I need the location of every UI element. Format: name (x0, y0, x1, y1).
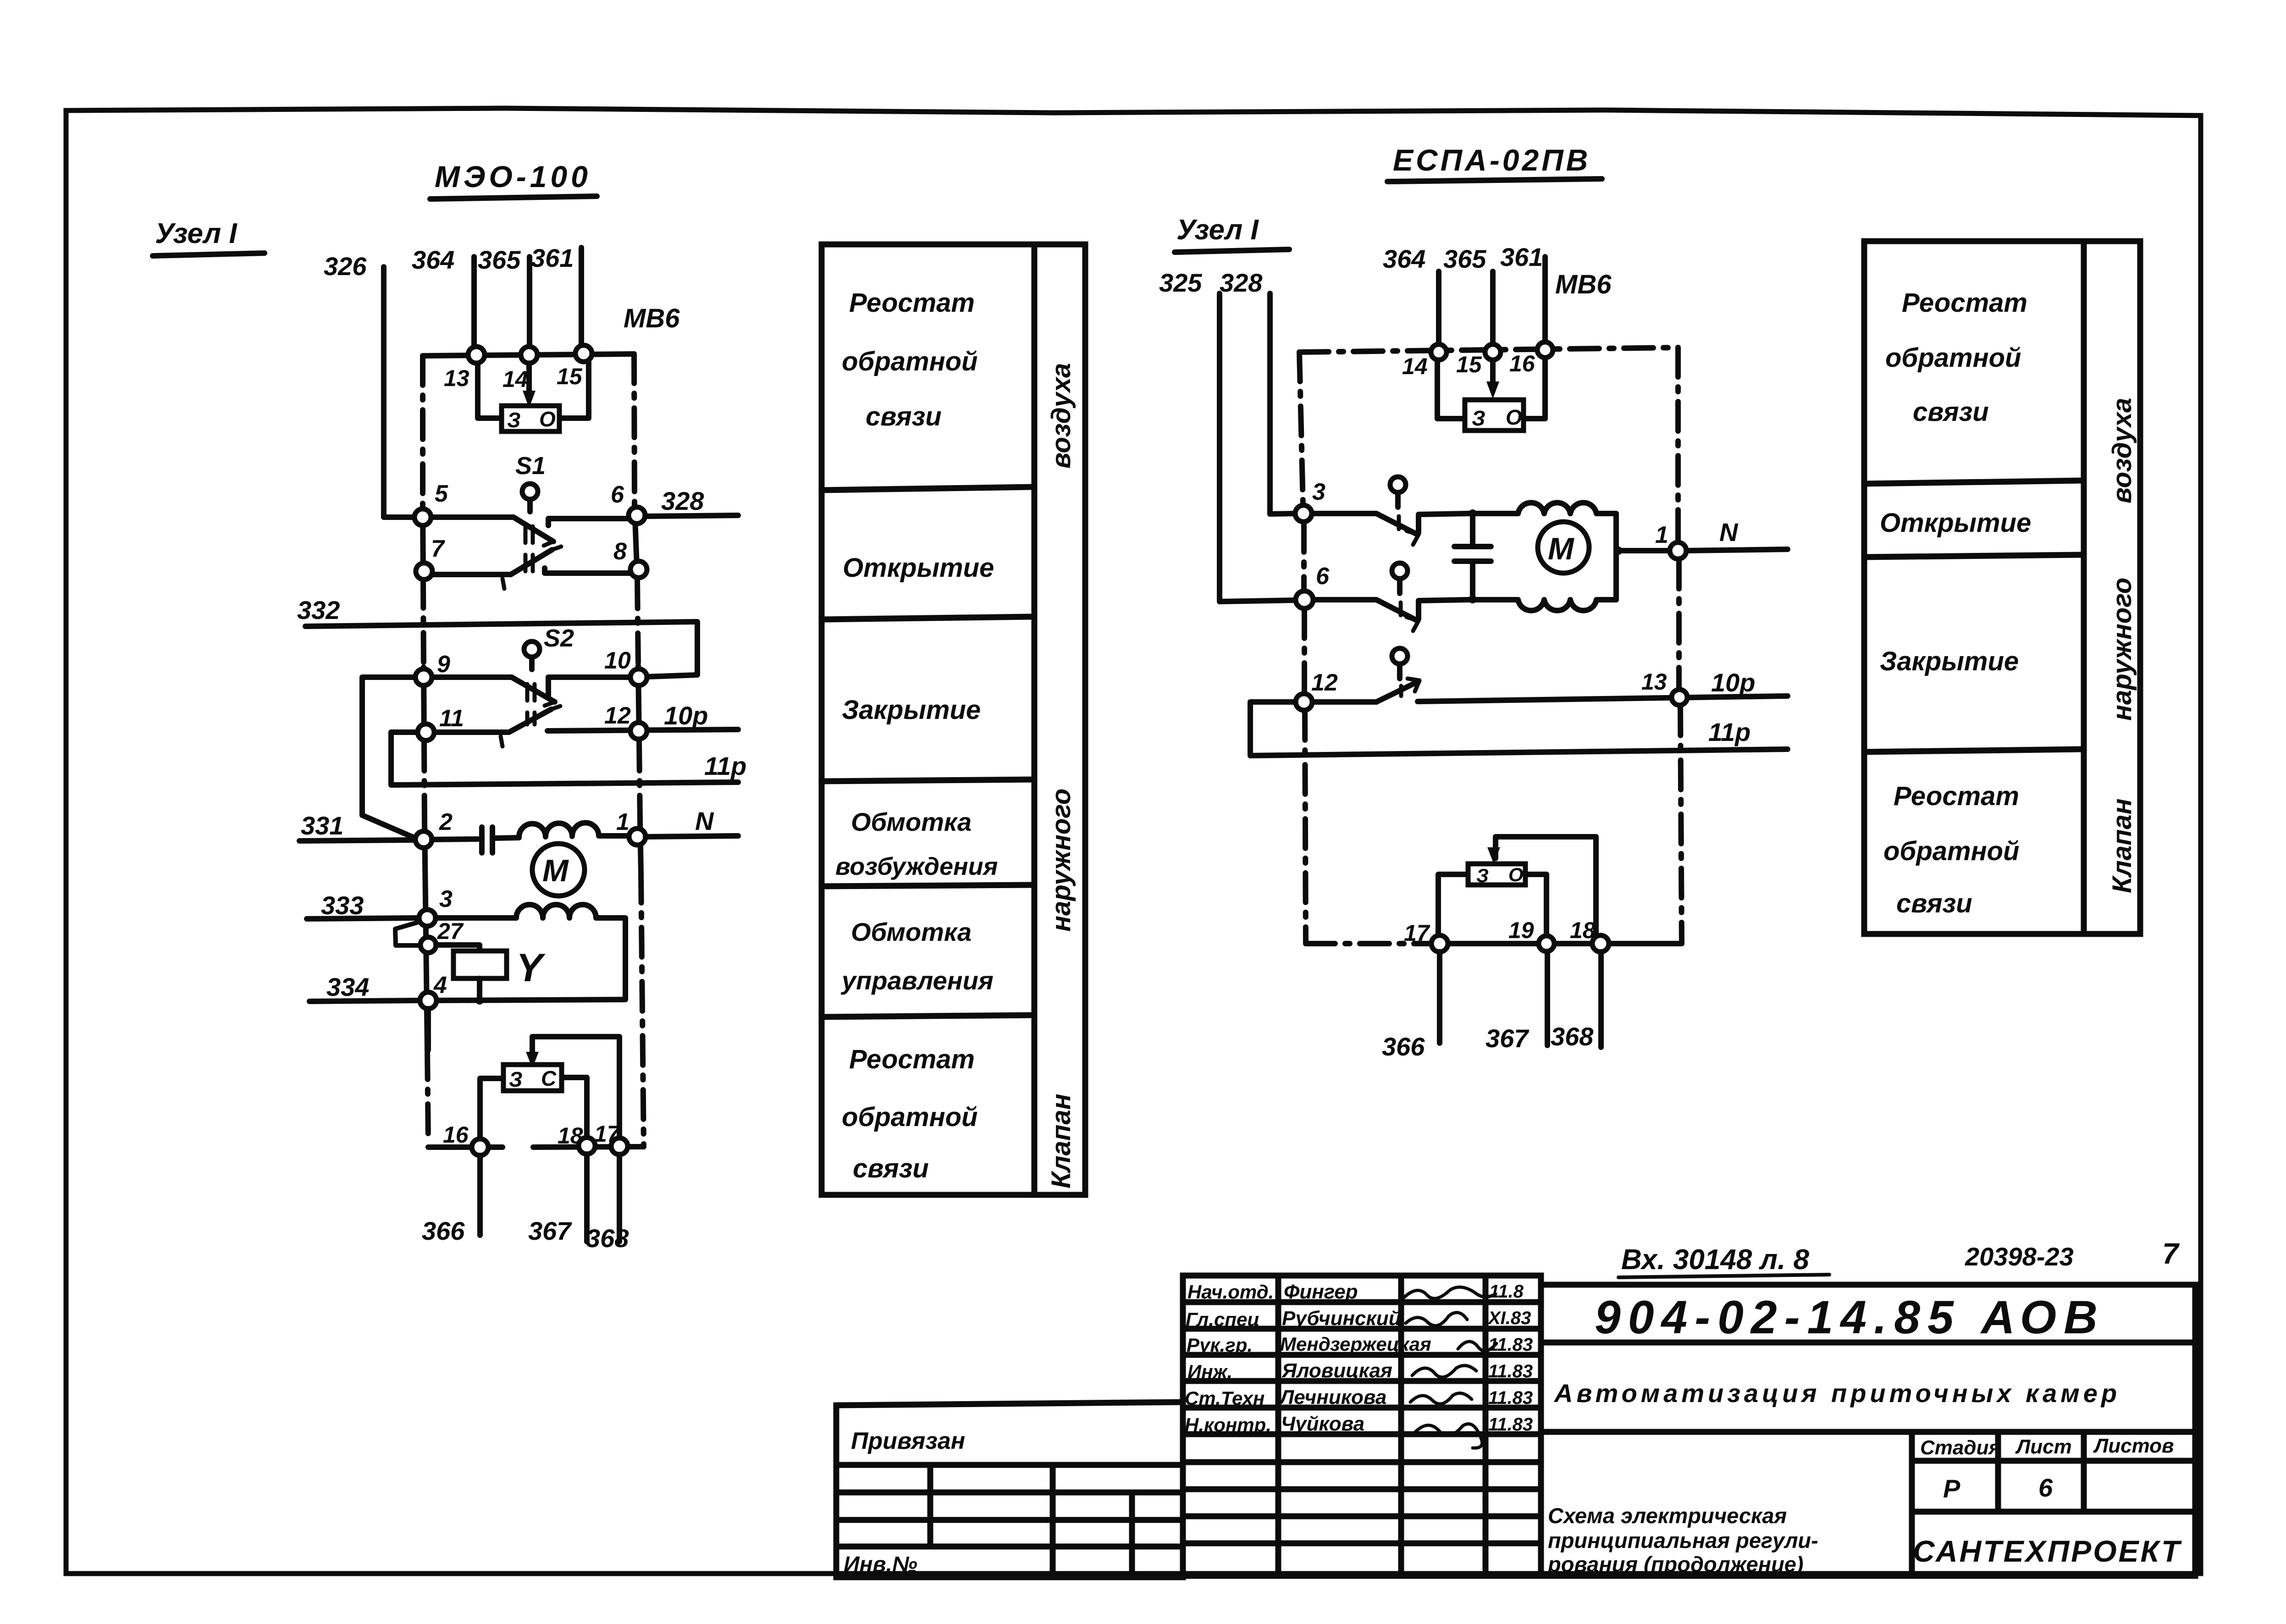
svg-text:12: 12 (1311, 669, 1338, 696)
svg-text:Схема электрическая: Схема электрическая (1548, 1503, 1787, 1528)
svg-text:Узел I: Узел I (1176, 214, 1259, 246)
node 5 (414, 509, 431, 525)
wire loop node 12 to 11р (1250, 702, 1788, 756)
svg-text:19: 19 (1508, 917, 1534, 943)
svg-text:326: 326 (324, 252, 367, 281)
svg-text:Яловицкая: Яловицкая (1281, 1359, 1392, 1382)
right legend table frame (1864, 241, 2084, 934)
wire loop 13 to ЗО box (478, 364, 502, 418)
wire bottom boundary (428, 1144, 502, 1150)
svg-text:Р: Р (1943, 1474, 1960, 1503)
svg-text:328: 328 (1220, 268, 1263, 297)
switch S1 (522, 484, 538, 499)
node 10 (630, 669, 647, 685)
svg-text:3: 3 (1312, 479, 1325, 505)
wire arrow from 15 to ЗО box (1490, 360, 1496, 385)
svg-text:Открытие: Открытие (843, 553, 994, 583)
svg-text:Клапан: Клапан (2107, 798, 2137, 893)
boundary dash-dot left (1299, 352, 1303, 505)
connector flag at node 27 (395, 922, 418, 945)
svg-text:наружного: наружного (1046, 789, 1076, 932)
svg-text:366: 366 (422, 1216, 465, 1245)
svg-text:Гл.спец: Гл.спец (1186, 1309, 1259, 1330)
attachment table Привязан (836, 1402, 1183, 1405)
inductor field winding (обмотка возбуждения) (519, 823, 629, 837)
svg-text:9: 9 (437, 651, 450, 678)
svg-text:361: 361 (1500, 243, 1543, 271)
wire 27 to relay Y (436, 945, 480, 951)
svg-text:рования (продолжение): рования (продолжение) (1547, 1552, 1804, 1576)
capacitor C1 (432, 839, 478, 840)
node 13 (468, 347, 485, 363)
svg-text:З: З (509, 1067, 523, 1091)
motor winding lower (1518, 600, 1616, 611)
svg-text:368: 368 (586, 1224, 629, 1253)
svg-text:Клапан: Клапан (1046, 1094, 1076, 1188)
svg-text:САНТЕХПРОЕКТ: САНТЕХПРОЕКТ (1913, 1534, 2182, 1568)
node 1 (1670, 542, 1686, 559)
left legend table frame (822, 244, 1034, 1195)
svg-text:15: 15 (1456, 352, 1482, 377)
capacitor C2 (1470, 518, 1475, 547)
pushbutton SB2 (1392, 563, 1408, 579)
node 12 (630, 723, 647, 739)
svg-text:Реостат: Реостат (849, 288, 975, 318)
svg-text:Реостат: Реостат (849, 1044, 975, 1074)
wire 366 (1437, 952, 1442, 1043)
svg-text:Н.контр.: Н.контр. (1185, 1414, 1271, 1436)
svg-text:5: 5 (435, 481, 448, 507)
svg-text:333: 333 (321, 891, 364, 920)
row dividers (1864, 481, 2084, 484)
switch S1 contact 5-6 (431, 514, 514, 520)
svg-text:11.83: 11.83 (1488, 1414, 1533, 1435)
wire below node 4 (425, 1009, 431, 1050)
svg-text:Автоматизация приточных каме: Автоматизация приточных камер (1553, 1379, 2120, 1408)
svg-text:С: С (541, 1066, 557, 1090)
wire arrow from 14 to ЗО box (526, 362, 532, 395)
node 8 (630, 561, 647, 578)
svg-text:365: 365 (478, 245, 521, 274)
svg-text:13: 13 (444, 365, 469, 391)
svg-text:12: 12 (604, 702, 631, 729)
svg-text:368: 368 (1551, 1022, 1594, 1051)
node 17 (611, 1138, 628, 1154)
svg-text:Листов: Листов (2093, 1435, 2174, 1457)
wire left boundary dash-dot (420, 356, 425, 507)
svg-text:Закрытие: Закрытие (1880, 646, 2019, 676)
svg-text:обратной: обратной (1885, 343, 2021, 373)
wire 367 (584, 1154, 590, 1242)
svg-text:МВ6: МВ6 (624, 304, 680, 333)
svg-text:Узел I: Узел I (155, 218, 237, 249)
row dividers (822, 487, 1034, 490)
svg-text:Реостат: Реостат (1902, 288, 2027, 318)
svg-text:6: 6 (611, 481, 624, 508)
svg-text:Ст.Техн: Ст.Техн (1185, 1387, 1264, 1409)
svg-text:331: 331 (301, 811, 343, 840)
node 19 (1539, 936, 1554, 951)
node 11 (418, 724, 434, 740)
svg-text:М: М (1548, 531, 1574, 566)
svg-text:З: З (1472, 406, 1485, 430)
rheostat feedback box ЗО (З О) (1465, 400, 1524, 431)
wire Y to 334 (477, 978, 482, 1000)
svg-text:16: 16 (443, 1122, 469, 1148)
wire terminal crossbar 13-14-15 (423, 354, 634, 356)
svg-text:З: З (1476, 865, 1489, 886)
svg-text:связи: связи (1913, 397, 1989, 427)
svg-text:Инв.№: Инв.№ (844, 1552, 917, 1577)
relay coil Y (453, 951, 507, 978)
rheostat feedback box ЗС (З С) (503, 1065, 562, 1091)
svg-text:4: 4 (433, 972, 447, 999)
pushbutton SB1 (1390, 477, 1406, 492)
svg-text:воздуха: воздуха (2107, 398, 2137, 503)
node 12 (1296, 694, 1312, 710)
inductor control winding (обмотка управления) (436, 915, 516, 921)
rheostat feedback box ЗО 2 (З О) (1468, 864, 1525, 885)
svg-text:Мендзержецкая: Мендзержецкая (1280, 1333, 1431, 1355)
svg-text:18: 18 (1570, 917, 1596, 943)
svg-text:11.83: 11.83 (1488, 1361, 1533, 1381)
svg-text:Нач.отд.: Нач.отд. (1187, 1281, 1274, 1303)
svg-text:XI.83: XI.83 (1487, 1308, 1531, 1328)
svg-text:11: 11 (439, 705, 464, 732)
svg-text:управления: управления (840, 966, 994, 995)
wire 11р from node 11 (391, 732, 738, 785)
svg-text:Инж.: Инж. (1187, 1361, 1232, 1382)
svg-text:Обмотка: Обмотка (851, 917, 972, 946)
svg-text:Открытие: Открытие (1880, 508, 2031, 538)
boundary dash-dot right (1675, 348, 1681, 542)
main title block frame (1541, 1285, 2195, 1576)
svg-text:365: 365 (1443, 244, 1486, 273)
contact 6 open (1313, 597, 1376, 602)
wire loop 17 to ЗО box 2 (1438, 874, 1468, 935)
svg-text:364: 364 (1383, 244, 1425, 273)
node 18 (579, 1138, 595, 1154)
node 16 (472, 1139, 488, 1155)
node 14 (1431, 344, 1447, 360)
svg-text:10: 10 (604, 647, 631, 674)
svg-text:Рук.гр.: Рук.гр. (1187, 1334, 1253, 1356)
node 15 (575, 345, 592, 362)
svg-text:N: N (1719, 518, 1739, 547)
wire loop to ЗС box with arrow (532, 1037, 619, 1138)
node 3 (419, 910, 436, 926)
contact 12 open (1312, 699, 1376, 705)
svg-text:14: 14 (1402, 354, 1428, 379)
node 9 (415, 669, 432, 685)
node 27 (420, 937, 436, 953)
switch S2 contact 9-10 (432, 674, 512, 680)
svg-text:S1: S1 (515, 452, 546, 480)
svg-text:связи: связи (853, 1154, 929, 1183)
svg-text:7: 7 (431, 536, 445, 562)
svg-text:20398-23: 20398-23 (1965, 1242, 2074, 1271)
svg-text:328: 328 (661, 486, 704, 515)
svg-text:8: 8 (613, 538, 627, 565)
svg-text:ЕСПА-02ПВ: ЕСПА-02ПВ (1393, 143, 1590, 177)
svg-text:связи: связи (866, 402, 942, 431)
wire loop 14 to ЗО box (1437, 360, 1465, 419)
boundary dash-dot bottom (1306, 941, 1431, 946)
pushbutton SB3 (1392, 648, 1408, 664)
svg-text:Закрытие: Закрытие (842, 695, 981, 725)
wire loop 16 to ЗО box (1524, 359, 1545, 419)
signature table frame (1183, 1276, 1541, 1576)
node 7 (416, 563, 432, 580)
wire loop node 9 to node 2 (362, 677, 416, 839)
wire 10р (1418, 696, 1788, 702)
boundary dash-dot top (1299, 348, 1678, 352)
svg-text:наружного: наружного (2107, 578, 2137, 721)
node 3 (1295, 505, 1312, 522)
svg-text:18: 18 (558, 1123, 583, 1149)
svg-text:2: 2 (439, 809, 453, 835)
svg-text:11р: 11р (704, 751, 746, 780)
motor winding upper (1518, 503, 1616, 600)
svg-text:11.83: 11.83 (1488, 1335, 1533, 1355)
node 6 (1296, 591, 1313, 608)
svg-text:Обмотка: Обмотка (851, 807, 972, 836)
svg-text:367: 367 (528, 1216, 572, 1245)
svg-text:11р: 11р (1708, 718, 1750, 746)
node 6 (629, 507, 645, 524)
svg-text:З: З (507, 408, 521, 432)
svg-text:27: 27 (437, 918, 464, 944)
node 1 (629, 829, 646, 845)
svg-text:S2: S2 (544, 624, 574, 652)
svg-text:10р: 10р (1711, 668, 1756, 697)
svg-text:16: 16 (1509, 351, 1535, 376)
svg-text:17: 17 (1404, 920, 1430, 946)
motor U1 (М) (532, 844, 585, 896)
node 18 (1592, 935, 1609, 952)
wire loop 19 to ЗО box 2 (1525, 874, 1546, 935)
svg-text:О: О (1506, 405, 1522, 429)
svg-text:364: 364 (412, 245, 454, 274)
svg-text:принципиальная регули-: принципиальная регули- (1548, 1528, 1818, 1552)
svg-text:325: 325 (1159, 268, 1202, 297)
node 4 (420, 992, 436, 1009)
svg-text:6: 6 (1316, 563, 1330, 590)
contact 3 open (1312, 511, 1376, 516)
svg-text:Y: Y (516, 946, 546, 990)
svg-text:возбуждения: возбуждения (835, 853, 998, 880)
svg-text:10р: 10р (664, 701, 708, 730)
svg-text:обратной: обратной (842, 347, 978, 376)
switch S2 contact 11-12 (434, 729, 509, 735)
node 13 (1672, 690, 1687, 705)
svg-text:361: 361 (531, 243, 574, 272)
svg-text:1: 1 (1655, 522, 1668, 548)
svg-text:М: М (542, 853, 569, 888)
svg-text:367: 367 (1485, 1024, 1530, 1053)
svg-text:14: 14 (502, 366, 528, 392)
node 2 (415, 831, 432, 848)
svg-text:обратной: обратной (1883, 836, 2020, 866)
svg-text:15: 15 (557, 364, 583, 389)
svg-text:Стадия: Стадия (1920, 1436, 2000, 1459)
node 15 (1485, 344, 1501, 360)
wire to node 1 (1616, 548, 1670, 553)
wire loop to ЗО box 2 with arrow (1496, 837, 1596, 935)
svg-text:Привязан: Привязан (851, 1428, 965, 1454)
wire 366 (477, 1155, 483, 1235)
svg-text:7: 7 (2162, 1237, 2180, 1270)
switch S1 contact 7-8 (432, 572, 511, 577)
svg-text:Лист: Лист (2015, 1436, 2072, 1458)
svg-text:3: 3 (439, 886, 453, 912)
svg-text:О: О (1508, 864, 1524, 885)
node 16 (1537, 342, 1553, 358)
svg-text:обратной: обратной (842, 1102, 978, 1132)
svg-text:МЭО-100: МЭО-100 (435, 160, 591, 193)
svg-text:334: 334 (326, 972, 369, 1001)
svg-text:332: 332 (297, 596, 340, 624)
wire 368 (1598, 952, 1604, 1047)
switch S2 (524, 641, 540, 657)
svg-text:О: О (539, 407, 556, 431)
svg-text:6: 6 (2038, 1473, 2053, 1502)
svg-text:13: 13 (1641, 669, 1667, 695)
wire 367 (1545, 952, 1550, 1045)
wire loop 18 to ЗС box (562, 1077, 587, 1137)
node 14 (521, 347, 537, 363)
svg-text:Лечникова: Лечникова (1279, 1386, 1386, 1409)
wire 10р from node 12 (547, 729, 738, 731)
svg-text:воздуха: воздуха (1046, 363, 1076, 469)
motor U2 (М) (1538, 522, 1589, 573)
svg-text:11.83: 11.83 (1488, 1388, 1533, 1408)
svg-text:МВ6: МВ6 (1555, 270, 1612, 299)
svg-text:1: 1 (616, 809, 629, 835)
svg-text:Вх. 30148 л. 8: Вх. 30148 л. 8 (1621, 1244, 1810, 1276)
svg-text:904-02-14.85 АОВ: 904-02-14.85 АОВ (1595, 1291, 2105, 1343)
rheostat feedback box ЗО (З О) (502, 406, 559, 431)
svg-text:17: 17 (594, 1121, 621, 1147)
svg-text:Рубчинский: Рубчинский (1282, 1307, 1401, 1330)
svg-text:Фингер: Фингер (1284, 1281, 1358, 1303)
wire right boundary dash-dot (634, 354, 635, 506)
svg-text:связи: связи (1896, 889, 1972, 918)
svg-text:11.8: 11.8 (1489, 1282, 1524, 1302)
svg-text:366: 366 (1382, 1032, 1425, 1061)
svg-text:Реостат: Реостат (1894, 781, 2019, 811)
svg-text:N: N (695, 806, 714, 835)
wire 368 (617, 1154, 622, 1242)
svg-text:Чуйкова: Чуйкова (1281, 1413, 1364, 1435)
node 17 (1431, 935, 1448, 952)
wire loop 15 to ЗО box (559, 362, 589, 418)
wire loop 16 to ЗС box (480, 1078, 503, 1139)
